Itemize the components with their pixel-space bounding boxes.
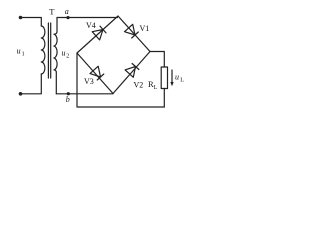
- diode V4 triangle and bar: [92, 26, 106, 40]
- uL arrowhead: [170, 82, 173, 86]
- wire node b horizontal: [56, 93, 113, 95]
- wire primary top: [21, 18, 42, 27]
- diode V1 triangle and bar: [125, 24, 139, 38]
- diode V3 triangle and bar: [90, 66, 104, 80]
- transformer T core: [48, 23, 50, 78]
- diode V2 triangle and bar: [125, 64, 139, 78]
- svg-text:V3: V3: [84, 77, 94, 86]
- terminal input top: [19, 16, 23, 20]
- wire bridge edge V2 (B to R): [113, 52, 150, 94]
- wire primary bottom: [21, 74, 42, 94]
- svg-text:u: u: [175, 73, 179, 82]
- svg-text:V1: V1: [140, 24, 150, 33]
- node a junction dot: [66, 16, 69, 19]
- svg-text:V4: V4: [86, 21, 96, 30]
- resistor RL box: [161, 67, 167, 89]
- svg-text:T: T: [49, 7, 55, 17]
- wire secondary top to node a and bridge top: [57, 17, 118, 19]
- svg-text:u: u: [17, 47, 21, 56]
- wire bridge edge V4 (L to T): [77, 16, 118, 53]
- svg-text:2: 2: [66, 53, 69, 59]
- svg-text:b: b: [66, 95, 70, 104]
- wire DC minus: left vertex down, crossing b wire, bottom rail: [77, 53, 164, 107]
- svg-text:u: u: [62, 48, 66, 57]
- transformer T secondary winding: [54, 18, 57, 94]
- wire bridge edge V1 (T to R): [118, 16, 150, 52]
- terminal input bottom: [19, 92, 23, 96]
- wire resistor bottom lead: [163, 89, 165, 108]
- wire DC plus: right vertex to resistor top: [150, 52, 164, 68]
- uL reference arrow: [171, 70, 173, 83]
- svg-text:L: L: [154, 85, 158, 91]
- svg-text:L: L: [180, 78, 184, 84]
- transformer T primary winding: [41, 26, 45, 74]
- svg-text:a: a: [65, 7, 69, 16]
- wire bridge edge V3 (L to B): [77, 53, 113, 94]
- svg-text:1: 1: [22, 52, 25, 58]
- svg-text:V2: V2: [134, 80, 144, 89]
- node b junction dot: [67, 92, 70, 95]
